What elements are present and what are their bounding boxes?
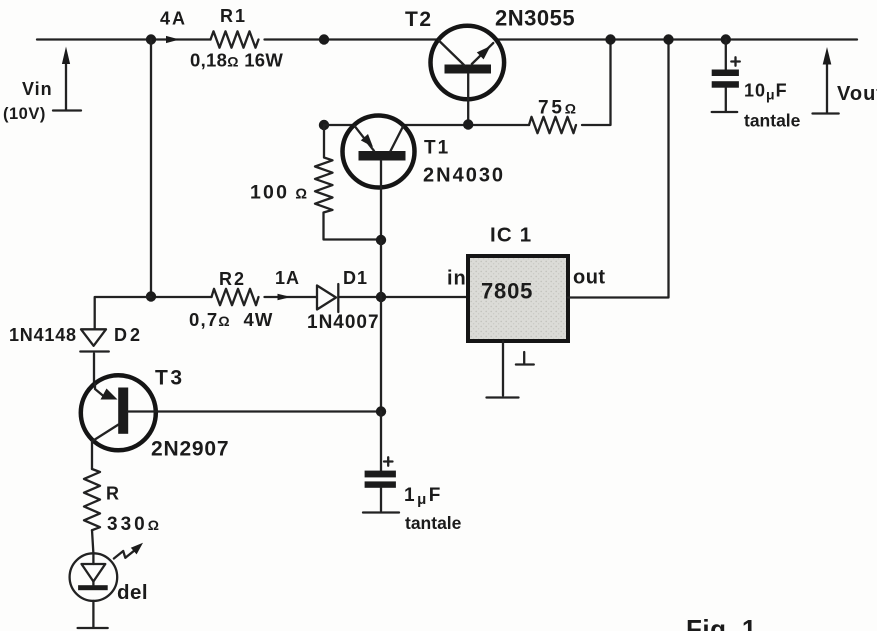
resistor R 330ohm — [84, 469, 100, 530]
svg-text:100 Ω: 100 Ω — [250, 182, 309, 204]
svg-text:in: in — [447, 268, 467, 290]
svg-text:T1: T1 — [424, 138, 450, 159]
wire: LED to bottom tick — [92, 601, 94, 628]
svg-text:10μF: 10μF — [744, 81, 788, 103]
current flow arrow 1A — [278, 294, 292, 301]
resistor R2 — [212, 289, 259, 305]
diode D1 — [317, 284, 338, 312]
wire: T3 collector down — [91, 441, 93, 469]
capacitor C 10uF tantale — [712, 40, 740, 113]
node: junction T2 base / driver rail — [463, 119, 473, 129]
IC1 regulator 7805 — [468, 256, 568, 341]
svg-text:7805: 7805 — [481, 279, 533, 304]
wire: IC1 out to top rail — [568, 40, 669, 298]
source Vin arrow — [65, 60, 67, 110]
diode D2 — [80, 329, 109, 351]
svg-text:Vin: Vin — [22, 79, 53, 99]
svg-text:4A: 4A — [160, 9, 187, 29]
wire: top rail between T2 and right edge — [496, 38, 857, 40]
svg-text:del: del — [117, 581, 148, 604]
resistor R1 — [211, 31, 259, 47]
wire: Vin bottom tick — [53, 109, 81, 111]
svg-text:1N4007: 1N4007 — [307, 312, 380, 333]
node: junction top rail / 75ohm column — [605, 34, 615, 44]
svg-text:D2: D2 — [114, 325, 143, 345]
resistor 100ohm — [315, 125, 381, 240]
svg-text:Fig. 1: Fig. 1 — [686, 614, 757, 631]
svg-text:R2: R2 — [219, 269, 246, 289]
wire: R to LED — [92, 530, 93, 564]
wire: driver rail mid — [403, 124, 529, 126]
wire: top rail left segment — [37, 38, 211, 40]
wire: R2 to D1 — [265, 296, 317, 298]
wire: T3 base to 1uF node — [128, 410, 381, 412]
LED del — [70, 543, 143, 601]
wire: Vout bottom tick — [813, 112, 839, 114]
svg-text:Vout: Vout — [837, 83, 877, 105]
node: junction 100ohm column / driver rail — [319, 120, 329, 130]
svg-text:tantale: tantale — [744, 111, 801, 131]
svg-text:T2: T2 — [405, 8, 433, 31]
svg-text:out: out — [573, 267, 606, 289]
wire: bottom terminal tick — [78, 627, 108, 629]
wire: R2 rail from Vin column — [151, 296, 212, 298]
svg-text:0,7Ω 4W: 0,7Ω 4W — [189, 309, 274, 330]
svg-text:1N4148: 1N4148 — [9, 325, 77, 345]
svg-text:1μF: 1μF — [404, 485, 443, 508]
transistor T3 — [81, 375, 156, 450]
transistor T2 — [431, 26, 505, 100]
svg-text:2N2907: 2N2907 — [151, 438, 229, 461]
transistor T1 — [343, 116, 415, 188]
node: junction top rail / 100ohm column — [319, 34, 329, 44]
resistor 75ohm — [529, 117, 576, 133]
svg-text:T3: T3 — [155, 367, 185, 390]
node: junction Vin column / R2 rail — [146, 291, 156, 301]
capacitor C 1uF tantale — [363, 412, 399, 513]
svg-text:IC 1: IC 1 — [490, 224, 532, 247]
wire: D2 to T3 — [93, 354, 95, 385]
wire: R2 rail left branch to D2 — [95, 297, 151, 329]
wire: D1 to IC1 in — [339, 296, 469, 298]
svg-text:330Ω: 330Ω — [107, 514, 162, 535]
wire: top rail between R1 and T2 — [265, 38, 439, 40]
current flow arrow 4A on top rail — [166, 36, 180, 43]
wire: T2 base down to driver node — [467, 74, 469, 125]
wire: T1 base down — [380, 161, 382, 240]
svg-text:(10V): (10V) — [3, 105, 46, 123]
svg-text:tantale: tantale — [405, 513, 462, 533]
svg-text:R1: R1 — [220, 6, 247, 26]
node: junction T1 base / 100ohm corner — [376, 235, 386, 245]
node: junction at Vin column on top rail — [146, 34, 156, 44]
svg-text:75Ω: 75Ω — [538, 98, 579, 119]
wire: driver rail right + up to top rail — [582, 40, 611, 126]
node: junction top rail / 10uF column — [721, 34, 731, 44]
svg-text:2N4030: 2N4030 — [423, 165, 505, 187]
wire: driver rail left — [324, 124, 354, 126]
svg-text:1A: 1A — [275, 268, 300, 288]
svg-text:2N3055: 2N3055 — [495, 6, 575, 31]
svg-text:0,18Ω 16W: 0,18Ω 16W — [190, 50, 283, 71]
node: junction D1 output / T1 base column — [376, 292, 386, 302]
node: junction top rail / out column — [663, 34, 673, 44]
wire: T1 base column down to T3 base rail — [380, 240, 382, 412]
svg-text:D1: D1 — [343, 268, 368, 288]
output Vout arrow — [826, 60, 828, 113]
node: junction T3 base rail / 1uF — [376, 406, 386, 416]
svg-text:R: R — [106, 484, 119, 504]
wire: vertical Vin column — [150, 40, 152, 298]
ground: IC1 ground pin — [487, 341, 534, 398]
